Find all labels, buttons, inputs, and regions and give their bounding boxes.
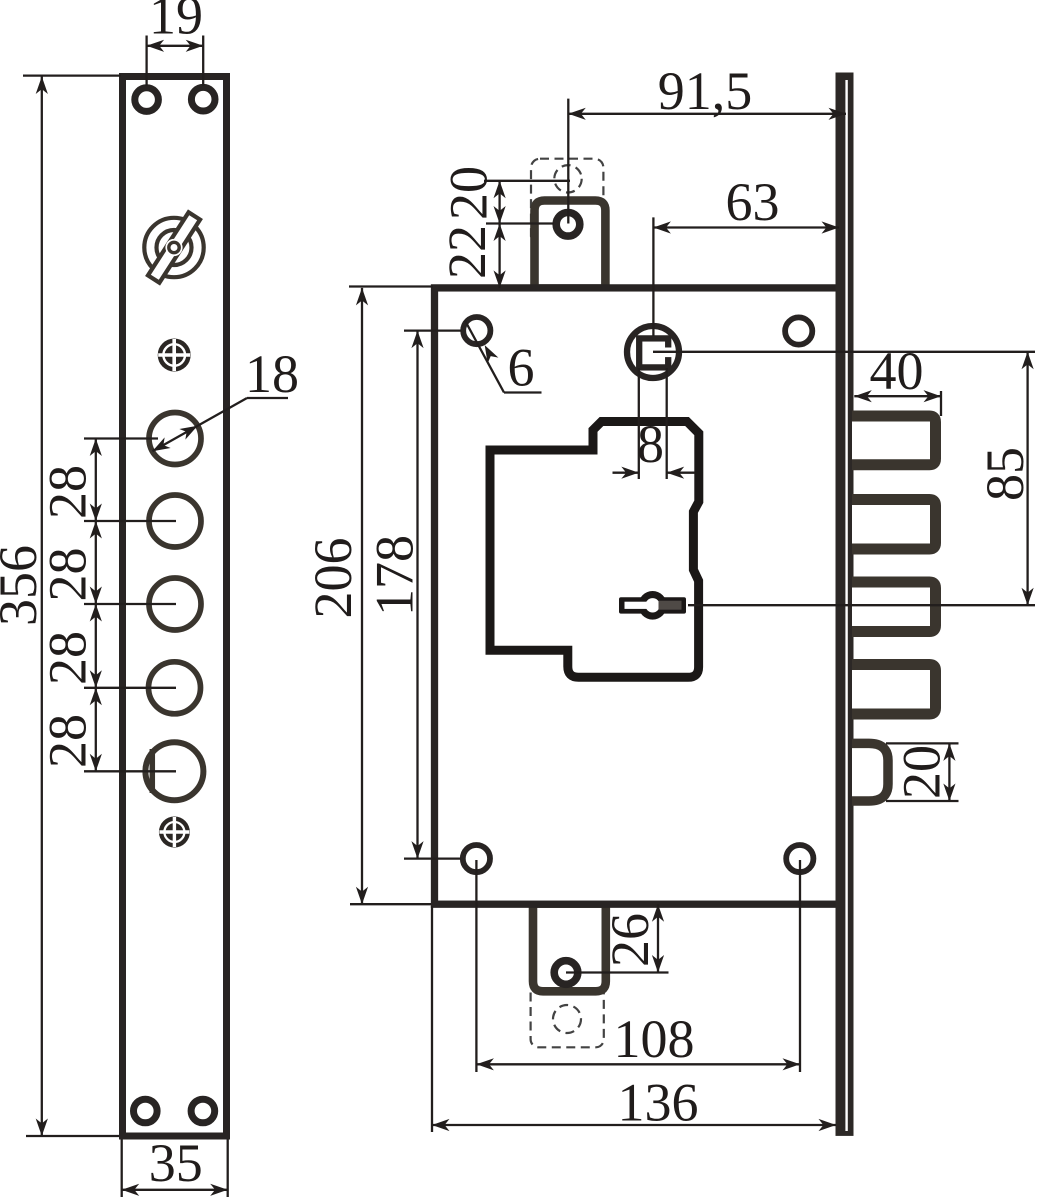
top screw hole left — [135, 88, 159, 112]
svg-text:108: 108 — [614, 1009, 695, 1069]
gap in square right edge — [662, 348, 673, 358]
bottom tab hole — [554, 961, 578, 985]
dim 19 — [147, 0, 204, 86]
lock body outline — [435, 288, 841, 904]
dim 136 — [432, 906, 836, 1133]
svg-text:28: 28 — [38, 548, 98, 602]
centre line through spindle — [653, 351, 1035, 353]
svg-text:20: 20 — [439, 166, 499, 220]
dim 20/22 tab — [437, 166, 570, 288]
solid top tab — [535, 201, 606, 289]
chord flat in hole 5 — [150, 749, 156, 793]
dim 178 — [365, 331, 462, 859]
dim 91,5 — [568, 61, 846, 224]
body screw hole bottom-right — [786, 845, 813, 872]
dim 40 — [854, 341, 941, 416]
bolt 4 — [852, 665, 936, 715]
dim 28 chain — [38, 439, 177, 772]
bottom screw hole right — [191, 1099, 215, 1123]
body screw hole bottom-left — [463, 845, 490, 872]
dashed flipped top tab hole — [554, 165, 581, 192]
svg-text:28: 28 — [38, 465, 98, 519]
dim 8 — [613, 368, 696, 479]
faceplate edge slot — [845, 80, 847, 1131]
centre line through key — [688, 604, 1035, 606]
top screw hole right — [191, 87, 215, 111]
dim 26 — [566, 904, 669, 972]
svg-text:85: 85 — [975, 447, 1035, 501]
cylinder hole 3 — [149, 578, 201, 630]
dim 6 leader — [465, 321, 542, 398]
solid bottom tab — [533, 904, 606, 992]
svg-text:63: 63 — [726, 172, 780, 232]
svg-text:22: 22 — [437, 225, 497, 279]
svg-text:40: 40 — [870, 341, 924, 401]
dashed flipped bottom tab — [531, 960, 604, 1047]
logo emblem — [144, 212, 203, 282]
body screw hole top-right — [785, 317, 812, 344]
dashed flipped bottom tab hole — [553, 1005, 581, 1033]
svg-text:8: 8 — [637, 414, 664, 474]
dim 356 — [0, 76, 121, 1136]
faceplate outline — [123, 77, 227, 1137]
lever pack cutout — [490, 422, 699, 678]
key cross-section — [619, 591, 686, 620]
cylinder hole 4 — [149, 662, 201, 714]
screw head lower — [159, 817, 190, 848]
dim 85 — [975, 352, 1035, 605]
body screw hole top-left — [463, 317, 490, 344]
faceplate edge view bar — [836, 73, 854, 1136]
spindle square — [639, 338, 668, 367]
screw head upper — [158, 339, 191, 372]
svg-text:28: 28 — [38, 631, 98, 685]
svg-text:35: 35 — [149, 1133, 203, 1193]
bolt 3 — [852, 582, 936, 632]
svg-text:26: 26 — [600, 913, 660, 967]
bolt 2 — [852, 500, 936, 550]
svg-text:19: 19 — [149, 0, 203, 46]
dashed flipped top tab — [531, 159, 603, 245]
cylinder hole 5 large — [145, 742, 203, 800]
bottom screw hole left — [134, 1099, 158, 1123]
svg-text:6: 6 — [508, 338, 535, 398]
dim 108 — [476, 860, 800, 1072]
svg-text:18: 18 — [245, 344, 299, 404]
dim 20 latch — [886, 743, 959, 801]
latch bolt — [852, 743, 888, 801]
svg-text:178: 178 — [365, 535, 425, 616]
svg-text:136: 136 — [618, 1073, 699, 1133]
svg-text:91,5: 91,5 — [658, 61, 753, 121]
svg-text:28: 28 — [38, 714, 98, 768]
cylinder hole 1 — [149, 413, 201, 465]
dim 35 — [122, 1133, 228, 1197]
top tab hole — [556, 213, 580, 237]
dim 206 — [303, 287, 433, 905]
bolt 1 — [852, 416, 936, 465]
cylinder hole 2 — [149, 495, 201, 547]
dim 63 — [653, 172, 839, 336]
svg-text:206: 206 — [303, 538, 363, 619]
dim 18 leader — [149, 344, 299, 457]
spindle square hole circle — [627, 326, 679, 378]
svg-text:20: 20 — [892, 745, 952, 799]
